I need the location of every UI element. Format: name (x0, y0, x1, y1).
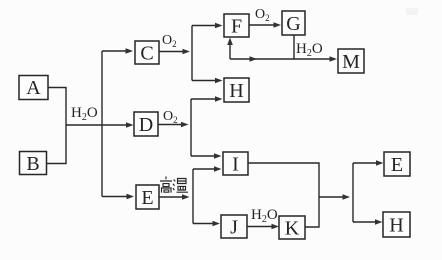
wire merge to E2H2 splitter (319, 194, 350, 200)
svg-text:H: H (389, 215, 403, 237)
box B (20, 152, 47, 176)
wire C to FH splitter with O2 (159, 49, 190, 55)
splitter F/H vertical (191, 26, 193, 81)
wire trunk to E (102, 194, 134, 200)
splitter E2/H2 vertical (352, 163, 354, 222)
splitter H/I vertical (190, 99, 192, 156)
wire J to K with H2O (247, 224, 279, 230)
svg-text:O2: O2 (255, 7, 270, 23)
trunk vertical (101, 51, 103, 197)
wire splitter to I lower (193, 166, 222, 172)
box H (224, 78, 249, 102)
box I (223, 152, 248, 176)
svg-text:F: F (231, 16, 242, 38)
wire bracket to D with H2O (66, 122, 134, 128)
wire splitter to H upper (192, 78, 223, 84)
wen character (173, 179, 188, 193)
box F (224, 14, 249, 38)
scan smudge top-right (406, 8, 418, 15)
splitter I/J vertical (192, 169, 194, 224)
svg-text:H2O: H2O (71, 105, 98, 123)
wire D to HI splitter with O2 (158, 122, 189, 128)
svg-text:E: E (141, 187, 153, 209)
wire splitter to J (193, 221, 220, 227)
wire K to merge (305, 197, 319, 227)
wire I to merge (248, 163, 319, 197)
mid arrowhead on M line (250, 56, 258, 62)
wire B to bracket (47, 125, 67, 164)
wire E to IJ splitter (gao wen) (159, 194, 190, 200)
svg-text:G: G (286, 13, 300, 35)
wire F to G with O2 (249, 22, 281, 28)
box G (282, 11, 305, 35)
wire G down to M line (293, 35, 295, 59)
wire splitter to E2 (353, 160, 384, 166)
box E (136, 185, 159, 209)
svg-text:H: H (229, 80, 243, 102)
box H2 (383, 212, 410, 237)
wire splitter to H2 (353, 219, 383, 225)
svg-text:O2: O2 (163, 109, 178, 125)
svg-text:A: A (26, 77, 41, 99)
box E2 (384, 152, 410, 176)
box K (279, 216, 305, 240)
gao character (160, 177, 172, 193)
label gaowen (high temperature) drawn strokes (160, 177, 188, 193)
svg-text:K: K (285, 218, 300, 240)
wire splitter to I upper (191, 153, 222, 159)
svg-text:H2O: H2O (251, 207, 278, 225)
wire A to bracket (48, 88, 66, 126)
svg-text:J: J (230, 217, 238, 239)
svg-text:E: E (391, 154, 403, 176)
svg-text:B: B (26, 153, 39, 175)
wire splitter to H lower (191, 96, 223, 102)
box A (19, 76, 48, 100)
wire up-arrow into F bottom (227, 38, 233, 60)
wire splitter to F (192, 23, 223, 29)
wire trunk to C (102, 48, 133, 54)
svg-text:M: M (342, 51, 360, 73)
box D (134, 112, 158, 136)
svg-text:O2: O2 (162, 33, 177, 49)
svg-text:I: I (232, 154, 239, 176)
box J (221, 215, 247, 239)
svg-text:D: D (139, 114, 153, 136)
svg-text:H2O: H2O (296, 41, 323, 59)
box C (135, 41, 159, 65)
box M (338, 49, 364, 73)
svg-text:C: C (140, 43, 153, 65)
wire horizontal to M (230, 56, 337, 62)
